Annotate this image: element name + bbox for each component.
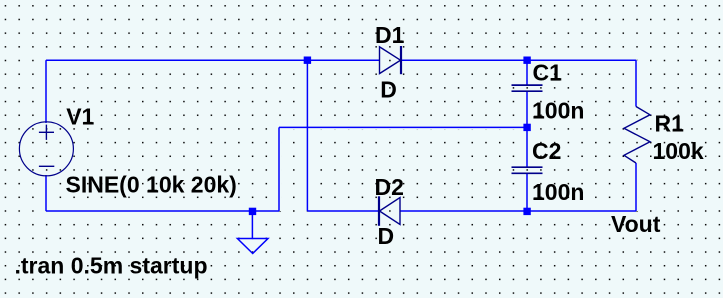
svg-text:Vout: Vout: [611, 211, 661, 237]
svg-text:C1: C1: [533, 60, 563, 86]
svg-text:.tran 0.5m startup: .tran 0.5m startup: [15, 252, 208, 278]
svg-text:100k: 100k: [653, 138, 704, 164]
svg-text:100n: 100n: [532, 179, 584, 205]
svg-text:D2: D2: [375, 174, 404, 200]
svg-text:V1: V1: [66, 104, 94, 130]
svg-text:D: D: [380, 77, 397, 103]
svg-text:D1: D1: [375, 22, 405, 48]
svg-text:100n: 100n: [532, 97, 584, 123]
svg-text:D: D: [378, 223, 395, 249]
svg-text:R1: R1: [655, 110, 685, 136]
svg-text:SINE(0 10k 20k): SINE(0 10k 20k): [66, 171, 237, 197]
svg-text:C2: C2: [532, 138, 561, 164]
